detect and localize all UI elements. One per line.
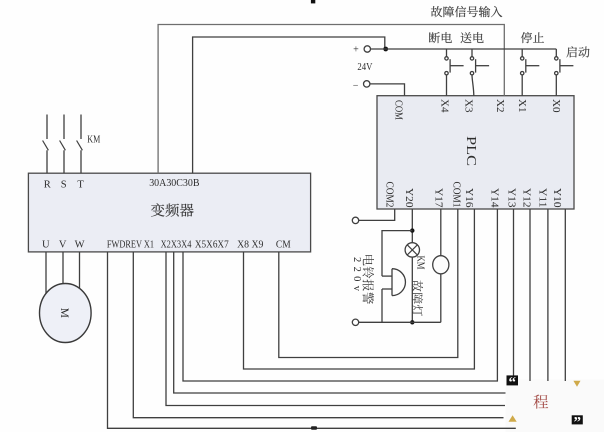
contactor KM pole R (46, 115, 48, 140)
label 送电 (461, 32, 472, 43)
svg-text:Y12: Y12 (521, 188, 532, 208)
terminal -24V (364, 81, 370, 87)
wire W to motor (79, 252, 81, 290)
svg-text:30A30C30B: 30A30C30B (149, 178, 199, 189)
bottom rail wire (359, 321, 441, 323)
svg-text:M: M (58, 308, 70, 318)
svg-text:U: U (42, 240, 50, 251)
label 故障灯 (412, 280, 423, 291)
wire Y20 down to lamp (411, 209, 413, 243)
svg-text:24V: 24V (357, 62, 373, 73)
bell lead bottom (382, 288, 392, 290)
wire bell to bottom rail (381, 289, 383, 322)
terminal 220v top (352, 217, 358, 223)
svg-text:−: − (353, 81, 359, 92)
contactor KM pole S (63, 115, 65, 140)
wire Y17 to KM coil (440, 209, 442, 256)
label 启动 (566, 46, 576, 57)
svg-text:+: + (353, 45, 359, 56)
svg-text:Y13: Y13 (506, 188, 517, 208)
svg-text:COM2: COM2 (383, 182, 394, 208)
watermark card background (506, 380, 604, 433)
wire to KM coil (440, 274, 442, 322)
wire X4 to Y14 (183, 209, 497, 381)
svg-text:X0: X0 (550, 99, 561, 113)
fault lamp 故障灯 (405, 243, 419, 257)
svg-text:Y11: Y11 (537, 188, 548, 208)
svg-text:W: W (75, 240, 85, 251)
wire X9 to Y16 (244, 209, 475, 369)
svg-text:Y14: Y14 (488, 188, 499, 208)
label 电铃报警 (363, 255, 374, 266)
svg-text:Y16: Y16 (463, 188, 474, 208)
wire COM2 to 220v terminal (359, 209, 395, 220)
svg-text:COM1: COM1 (451, 182, 462, 208)
pushbutton 断电 to X4 (446, 49, 448, 57)
terminal 220v bottom (352, 319, 358, 325)
wire 30A to X2 fault signal (158, 25, 504, 174)
pushbutton 送电 to X3 (471, 49, 473, 57)
branch wire to bell (382, 231, 412, 277)
svg-text:X2X3X4: X2X3X4 (161, 240, 192, 251)
wire FWD to Y10 (108, 252, 516, 428)
contactor KM pole T (80, 115, 82, 140)
svg-text:X8 X9: X8 X9 (237, 240, 263, 251)
label 断电 (429, 32, 440, 43)
artifact black square top (311, 0, 315, 3)
svg-text:“: “ (509, 375, 517, 391)
pushbutton 停止 to X1 (521, 49, 523, 57)
svg-text:Y17: Y17 (433, 188, 444, 208)
wire V to motor (62, 252, 64, 284)
svg-text:CM: CM (276, 240, 291, 251)
svg-text:X3: X3 (463, 99, 474, 113)
junction node bottom (410, 320, 414, 324)
label 故障信号输入 (431, 6, 442, 17)
svg-text:S: S (61, 180, 67, 191)
junction node (410, 228, 414, 232)
wire CM to COM1 (279, 209, 458, 358)
KM coil (433, 256, 449, 274)
pushbutton 启动 to X0 (555, 49, 557, 57)
+24V bus wire (371, 48, 557, 50)
svg-text:X4: X4 (438, 99, 449, 113)
watermark triangle up (509, 415, 517, 421)
svg-text:Y10: Y10 (551, 188, 562, 208)
svg-text:T: T (77, 180, 84, 191)
PLC box U1 (377, 96, 574, 209)
watermark triangle down (573, 381, 580, 387)
svg-text:KM: KM (87, 134, 101, 145)
watermark open-quote block (507, 375, 519, 385)
wire 30B to +24V bus (193, 37, 385, 173)
wire REV to Y11 (133, 252, 503, 418)
wire lamp down (411, 257, 413, 322)
terminal +24V (364, 46, 370, 52)
junction on + bus (383, 47, 388, 52)
wire X2 to Y12 (166, 252, 505, 406)
svg-text:PLC: PLC (463, 136, 478, 166)
watermark character 程 (534, 395, 549, 409)
svg-text:”: ” (573, 415, 581, 431)
svg-text:KM: KM (415, 256, 426, 271)
svg-text:V: V (59, 240, 67, 251)
svg-text:X1: X1 (516, 99, 527, 113)
svg-text:X5X6X7: X5X6X7 (195, 240, 229, 251)
artifact blob on bottom wire (311, 426, 317, 430)
inverter box 变频器 (28, 173, 310, 252)
svg-text:X2: X2 (494, 99, 505, 113)
svg-text:R: R (44, 180, 51, 191)
wire -24V to COM (370, 84, 405, 96)
label 停止 (521, 32, 532, 43)
label 变频器 (151, 203, 165, 216)
wire U to motor (45, 252, 47, 295)
motor M (40, 284, 92, 343)
svg-text:COM: COM (393, 100, 404, 120)
svg-text:Y20: Y20 (403, 188, 414, 208)
bell 电铃 half-circle (392, 269, 405, 296)
wire X3 to Y13 (174, 252, 506, 393)
bell lead top (382, 275, 392, 277)
watermark close-quote block (572, 415, 583, 424)
svg-text:FWDREV X1: FWDREV X1 (107, 240, 154, 251)
